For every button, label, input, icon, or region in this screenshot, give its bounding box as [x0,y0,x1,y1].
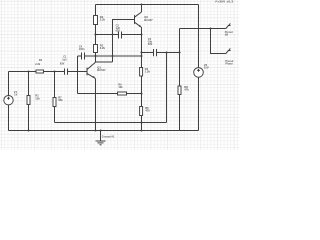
svg-text:BC547: BC547 [97,68,106,72]
svg-text:Phase: Phase [225,62,233,65]
input bus wire [9,71,37,73]
resistor RG series input [36,70,44,73]
wire: R8 bottom to ground rail [179,95,181,131]
transistor Q1 [86,68,88,76]
svg-text:100n: 100n [79,48,85,51]
wire: rail A right riser [166,53,168,123]
junction R2/R3 divider tap [94,33,96,35]
pin Preout 1 [226,26,231,29]
wire: R3 bottom to node A [95,53,97,63]
capacitor C5 plates [153,49,155,56]
svg-text:1.2k: 1.2k [145,70,151,74]
svg-text:63V: 63V [148,43,153,46]
wire: Q2 base bend [113,20,135,63]
resistor R4 [140,68,143,77]
capacitor C2 bus wire [96,34,119,36]
wire: rail left drop to R2 [95,5,97,16]
svg-text:10k: 10k [118,86,123,89]
transistor Q2 [134,15,136,24]
svg-text:15V: 15V [204,66,209,70]
node A junction [94,55,96,57]
pin Preout 2 [226,51,231,54]
svg-text:470: 470 [145,109,150,113]
capacitor C2 plates [118,32,120,39]
wire: Q2 collector to top rail [141,5,143,13]
resistor R1 12k shunt [28,72,30,96]
svg-text:↗+30V ±0.3: ↗+30V ±0.3 [215,0,234,4]
wire: output 2 drop [211,29,226,54]
ground [100,131,102,142]
feedback rail A [55,122,167,124]
wire a: Q1 collector bus [78,55,82,57]
supply V2 line [198,5,200,68]
wire: C4 corner down to R6 bus [77,56,79,94]
svg-text:63V: 63V [116,29,121,32]
wire: V2 bottom to ground rail [198,77,200,130]
voltage source V2 [194,68,204,78]
wire: pin riser / R8 line [179,29,181,87]
resistor R7 56k to rail A [54,72,56,98]
top supply rail [96,4,199,6]
resistor R8 [178,86,181,95]
resistor R2 [94,16,98,25]
svg-text:2.2k: 2.2k [100,46,106,50]
wire: output 1 [180,28,226,30]
svg-text:12k: 12k [35,97,40,101]
resistor R5 [140,107,143,116]
svg-text:1V: 1V [14,93,17,97]
svg-text:2.2k: 2.2k [100,18,106,22]
svg-text:47k: 47k [184,88,189,92]
svg-text:56k: 56k [58,98,63,102]
svg-text:63V: 63V [60,62,65,65]
wire: Q2 emitter down to R4 [141,27,143,67]
wire b: output coupling bus [142,52,154,54]
svg-text:1u5: 1u5 [62,58,67,61]
junction C2 bus at emitter line [140,33,142,35]
svg-text:BC337: BC337 [144,18,153,22]
wire: collector node jog [96,61,113,63]
R6 bus wire [78,93,118,95]
wire: Q1 emitter drop [95,79,97,131]
wire: R5 to rails [141,116,143,131]
input source V1 [8,72,10,96]
wire: R2 bottom to R3 top [95,25,97,45]
capacitor C4 plates [81,53,83,60]
svg-text:dB: dB [225,34,229,37]
capacitor C1 plates [64,69,66,75]
resistor R3 [94,45,98,53]
wire: R4 to R5 [141,76,143,107]
ground rail C [9,130,199,132]
svg-text:2.2k: 2.2k [35,63,40,66]
svg-text:Ground #1: Ground #1 [102,135,115,138]
resistor R6 [118,92,127,95]
